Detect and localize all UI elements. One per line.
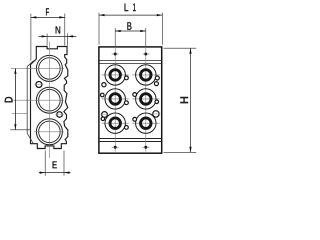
port circle P3 outer [36, 119, 62, 145]
screw hole right of A3 [125, 126, 129, 130]
side hole row extension line [12, 112, 27, 114]
top flange line [99, 60, 162, 62]
block outline [99, 47, 162, 153]
port circle P1 inner [39, 58, 61, 80]
small hole left view upper-left [36, 82, 42, 88]
end plate profile left of body [27, 61, 33, 144]
dimension N [39, 34, 77, 46]
body outline left view [31, 47, 68, 149]
vertical centerline left view [48, 42, 50, 159]
horizontal centerline P3 [34, 131, 64, 133]
port A3 [102, 113, 129, 133]
horizontal centerline P1 (D extension) [11, 67, 64, 69]
dimension D [10, 68, 30, 129]
dimension B [115, 30, 146, 32]
dimension E [39, 151, 71, 176]
port B1 [132, 65, 159, 85]
dimension F [31, 14, 65, 61]
small hole left view lower-right [57, 112, 63, 118]
screw hole right of A2 [125, 101, 129, 105]
label E [52, 161, 56, 168]
port circle P2 inner [39, 89, 61, 111]
port circle P1 outer [36, 55, 62, 81]
mounting hole left edge row1 [102, 83, 106, 87]
dimension L1 [99, 13, 162, 45]
column centerline left [114, 28, 116, 47]
port B2 [132, 89, 159, 109]
flange hole bottom-right [143, 146, 150, 149]
flange hole top-left [112, 53, 119, 56]
mounting hole right edge row3 [153, 111, 159, 117]
label N [55, 26, 60, 33]
screw hole right edge row1 upper [155, 76, 159, 80]
label D [5, 97, 13, 103]
screw hole left of B2 [133, 93, 137, 97]
label H [180, 97, 188, 104]
port circle P3 inner [39, 121, 61, 143]
bottom gasket line [99, 138, 162, 140]
flange hole bottom-left [112, 146, 119, 149]
screw hole right edge row2 [155, 100, 159, 104]
port A1 [102, 65, 129, 85]
bottom flange line [99, 141, 162, 143]
screw hole left of B3 [133, 117, 137, 121]
screw hole right of A1 [125, 76, 129, 80]
port circle P2 outer [36, 87, 62, 113]
port B3 [132, 113, 159, 133]
flange hole top-right [143, 53, 150, 56]
screw hole left edge row2 [101, 93, 105, 97]
top gasket line [99, 63, 162, 65]
port A2 [102, 89, 129, 109]
label B [127, 22, 131, 30]
label F [46, 8, 49, 16]
screw hole left edge below row3 hole [101, 117, 105, 121]
dimension H [164, 48, 197, 152]
screw hole right edge row1 lower [154, 82, 158, 86]
mounting hole left edge row3 [102, 112, 108, 118]
column centerline right [145, 28, 147, 47]
label L1 [124, 3, 128, 11]
horizontal centerline P2 (D extension) [11, 99, 64, 101]
